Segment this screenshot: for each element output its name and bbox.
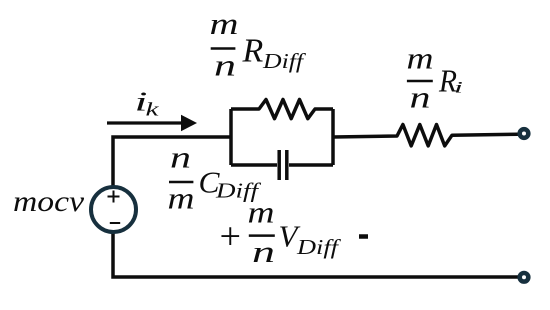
svg-text:n: n bbox=[410, 80, 431, 115]
svg-text:R: R bbox=[242, 32, 264, 69]
svg-text:n: n bbox=[214, 48, 236, 83]
svg-text:+: + bbox=[217, 216, 243, 258]
svg-text:n: n bbox=[252, 234, 275, 269]
svg-text:m: m bbox=[248, 195, 275, 230]
svg-text:i: i bbox=[454, 80, 463, 97]
svg-text:m: m bbox=[210, 6, 239, 41]
svg-text:k: k bbox=[146, 100, 160, 121]
svg-text:n: n bbox=[170, 139, 191, 174]
svg-text:mocv: mocv bbox=[13, 185, 85, 218]
svg-text:m: m bbox=[407, 41, 434, 76]
svg-text:Diff: Diff bbox=[296, 235, 342, 259]
svg-text:m: m bbox=[168, 181, 195, 216]
svg-text:Diff: Diff bbox=[262, 49, 307, 73]
